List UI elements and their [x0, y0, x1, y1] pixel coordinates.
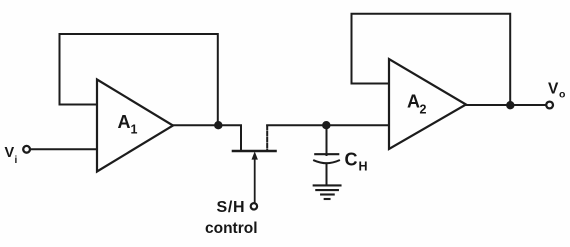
wire A2 feedback loop — [352, 14, 511, 104]
label Vo — [548, 81, 565, 101]
wire A2 output — [466, 104, 546, 106]
svg-text:H: H — [359, 160, 368, 174]
svg-text:A: A — [118, 112, 131, 132]
svg-text:C: C — [345, 149, 358, 169]
svg-text:2: 2 — [420, 103, 427, 117]
transistor Q1 gate lead — [254, 159, 256, 203]
output terminal Vo — [546, 102, 553, 109]
label S/H control — [205, 199, 258, 237]
transistor Q1 gate arrow — [252, 151, 258, 159]
label A2 — [407, 91, 427, 116]
transistor Q1 channel bar — [233, 150, 276, 153]
label Vi — [5, 145, 18, 166]
op-amp A2 — [389, 59, 466, 149]
wire Vi to A1 input — [30, 148, 97, 150]
wire transistor to A2 input — [267, 124, 389, 126]
wire A1 output to Q1 source — [173, 125, 241, 150]
svg-text:V: V — [5, 145, 15, 161]
svg-text:S/H: S/H — [217, 199, 246, 216]
input terminal Vi — [23, 146, 30, 153]
node hold capacitor junction — [322, 121, 330, 129]
capacitor CH top lead — [326, 125, 328, 155]
svg-text:V: V — [548, 81, 559, 98]
wire A1 feedback loop — [60, 34, 218, 124]
svg-text:o: o — [559, 88, 565, 100]
svg-text:A: A — [407, 91, 420, 111]
op-amp A1 — [97, 80, 173, 172]
transistor Q1 drain lead (dashed artifact) — [266, 126, 268, 151]
svg-text:control: control — [205, 220, 258, 237]
capacitor CH top plate — [315, 153, 338, 155]
label A1 — [118, 112, 138, 137]
capacitor CH curved plate — [314, 160, 339, 163]
node A2 output junction — [506, 101, 514, 109]
node A1 output junction — [214, 121, 222, 129]
svg-text:1: 1 — [131, 123, 138, 137]
S/H control terminal — [251, 203, 257, 209]
svg-text:i: i — [15, 155, 18, 166]
ground — [314, 185, 341, 199]
label CH — [345, 149, 368, 173]
capacitor CH bottom lead — [326, 163, 328, 185]
